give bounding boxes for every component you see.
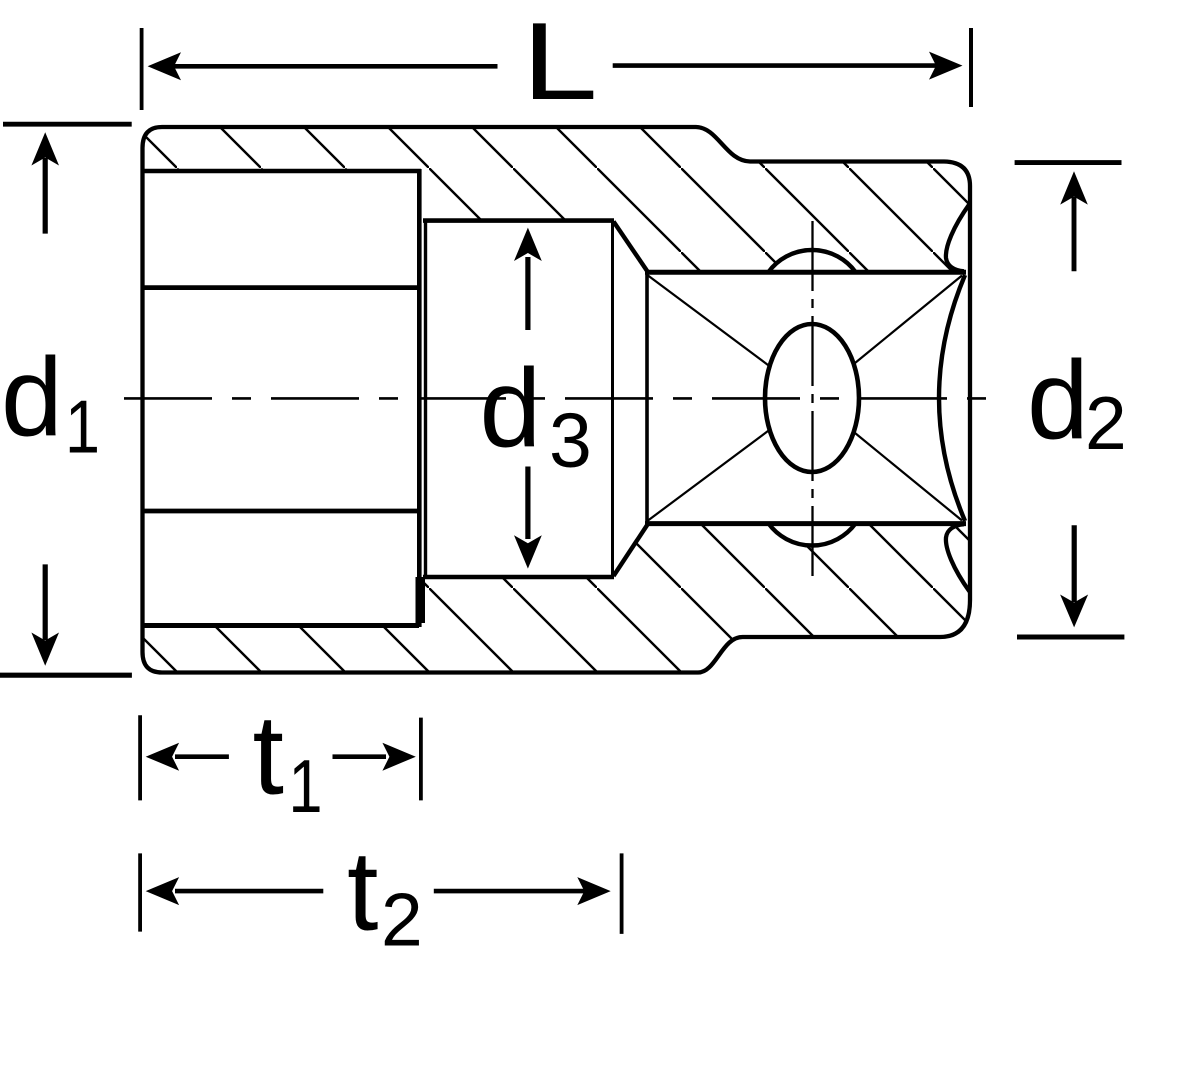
square drive bottom edge	[645, 521, 966, 526]
hex facet line upper	[144, 285, 418, 290]
hex recess bottom edge	[143, 623, 420, 628]
dimension t2: right arrow	[434, 889, 595, 894]
svg-text:t: t	[347, 827, 378, 953]
square drive left face	[645, 272, 649, 524]
hex recess top edge	[143, 169, 422, 174]
dimension d1: down arrow	[43, 564, 48, 640]
ball detent arc bottom	[769, 524, 856, 546]
cone bottom edge	[614, 523, 649, 576]
cross hole ellipse	[765, 324, 859, 472]
svg-text:1: 1	[289, 744, 323, 828]
body outline	[143, 127, 971, 673]
hex facet line lower	[144, 509, 418, 514]
ball detent arc top	[769, 250, 856, 272]
dimension t2: left tick	[138, 853, 142, 931]
dimension d1: up arrow	[43, 158, 48, 234]
square drive back wall concave arc	[939, 275, 965, 521]
svg-text:2: 2	[1085, 381, 1127, 465]
ball detent recess top (white fill)	[769, 250, 856, 272]
square corner diagonal top-right	[854, 276, 962, 365]
d3 bore bottom edge	[423, 575, 614, 580]
horizontal centre line	[124, 397, 1006, 400]
ball detent recess bottom (white fill)	[769, 524, 856, 546]
cone top edge	[614, 222, 649, 274]
dimension d2: down arrow	[1072, 525, 1077, 602]
svg-text:2: 2	[381, 877, 423, 961]
dimension t1: left arrow	[175, 754, 229, 759]
square corner diagonal top-left	[648, 276, 770, 367]
dimension d3: up arrow	[525, 257, 530, 330]
dimension d2: top extension line	[1015, 160, 1122, 165]
hex recess end face	[417, 169, 422, 627]
vertical centre line of drive	[811, 221, 813, 578]
square drive top edge	[645, 270, 966, 275]
svg-text:t: t	[253, 692, 284, 818]
dimension t1: right tick	[419, 718, 423, 801]
dimension L: left line + arrow	[172, 64, 498, 69]
d3 bore cavity (white)	[422, 221, 614, 578]
dimension d1: bottom extension line	[0, 673, 132, 678]
square drive cavity (white)	[645, 272, 968, 524]
dimension t2: left arrow	[175, 889, 323, 894]
svg-text:d: d	[480, 346, 542, 470]
socket body section: hatched material fill	[143, 127, 971, 673]
dimension t1: left tick	[138, 715, 142, 800]
square corner diagonal bottom-left	[648, 430, 770, 521]
back chamfer bottom	[946, 524, 970, 591]
dimension d2: up arrow	[1072, 197, 1077, 271]
dimension L: right line + arrow	[613, 63, 940, 68]
square corner diagonal bottom-right	[854, 432, 962, 521]
svg-text:1: 1	[65, 385, 100, 469]
merged step bar	[416, 577, 426, 623]
d3 bore left edge	[424, 219, 427, 578]
hex recess cavity (white)	[141, 169, 420, 626]
back chamfer top	[946, 204, 970, 271]
dimension L: left tick	[140, 28, 144, 110]
cone transition cavity (white)	[612, 221, 648, 577]
dimension d1: top extension line	[3, 122, 132, 127]
svg-text:3: 3	[549, 398, 592, 484]
dimension t1: right arrow	[333, 754, 387, 759]
d3 bore top edge	[423, 218, 614, 223]
dimension t2: right tick	[620, 853, 624, 934]
svg-text:d: d	[1, 335, 63, 459]
dimension d3: down arrow	[525, 467, 530, 540]
dimension L: right tick	[969, 28, 973, 107]
relief sliver between hex end and d3 bore (white)	[417, 172, 428, 577]
dimension d2: bottom extension line	[1017, 635, 1124, 640]
d3 bore end face	[611, 219, 614, 579]
svg-text:d: d	[1027, 338, 1089, 462]
svg-text:L: L	[522, 0, 598, 123]
